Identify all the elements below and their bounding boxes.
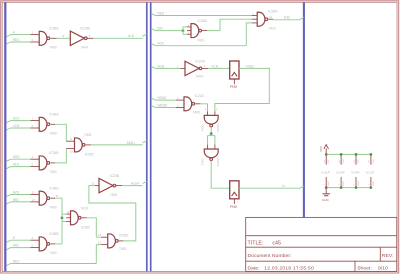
svg-text:7410: 7410	[197, 39, 205, 43]
wire AR2 (to IC35B pin 5)	[6, 248, 10, 250]
wire GND rail (bottom)	[326, 187, 371, 189]
svg-text:7400: 7400	[49, 132, 57, 136]
svg-text:4: 4	[205, 109, 207, 112]
svg-text:Sheet:: Sheet:	[357, 266, 372, 272]
junction node BIO at IC26B inputs	[182, 29, 185, 32]
svg-text:IC21D: IC21D	[216, 122, 220, 132]
svg-text:Document Number:: Document Number:	[248, 253, 292, 259]
wire RES bottom (to IC36D pin 13)	[6, 264, 10, 266]
svg-text:10: 10	[70, 149, 74, 153]
svg-text:IC34P: IC34P	[351, 170, 359, 174]
nand IC21C (vertical, pointing down)	[204, 149, 218, 158]
inverter IC23B	[99, 178, 113, 192]
svg-text:REV:: REV:	[382, 253, 394, 259]
svg-text:ATQ: ATQ	[13, 163, 20, 167]
svg-text:7404: 7404	[110, 193, 118, 197]
wire VCC rail (top)	[326, 153, 371, 155]
svg-text:5: 5	[32, 163, 34, 167]
svg-text:IC19B: IC19B	[81, 27, 91, 31]
svg-text:IC21A: IC21A	[195, 94, 205, 98]
svg-text:14: 14	[354, 160, 356, 163]
svg-text:IC21P: IC21P	[366, 170, 374, 174]
svg-text:9/10: 9/10	[378, 266, 388, 272]
svg-text:11: 11	[92, 181, 95, 185]
svg-text:14: 14	[324, 160, 326, 163]
wire AVD (to IC34D pin 12)	[6, 195, 10, 197]
svg-text:AVD: AVD	[13, 191, 20, 195]
nand IC26B (3-input)	[191, 24, 199, 38]
lamp PH2 lower	[230, 181, 239, 199]
svg-text:IC35A: IC35A	[49, 27, 59, 31]
svg-text:5: 5	[32, 244, 34, 248]
svg-text:VCC: VCC	[319, 145, 323, 152]
svg-text:IC36D: IC36D	[119, 233, 129, 237]
svg-text:3: 3	[63, 34, 65, 38]
svg-text:7: 7	[354, 183, 356, 185]
svg-text:7400: 7400	[84, 133, 92, 137]
wire VCR (IC20A out to PH2 lamp)	[208, 67, 230, 69]
wire ALD4 (IC23B out to middle bus)	[122, 185, 143, 187]
power part IC34P (VCC pin 14 / GND pin 7)	[355, 153, 358, 156]
svg-text:VCB: VCB	[13, 124, 20, 128]
wire GR2 (to IC34A pin 1)	[6, 121, 10, 123]
wire ACK (middle bus to IC26A pin 13)	[151, 44, 155, 46]
wire AJB (IC26A out to right bus)	[273, 19, 300, 21]
svg-text:VCC: VCC	[358, 159, 360, 164]
wire BR2 (to IC34D pin 13)	[6, 202, 10, 204]
nand IC34A	[39, 117, 47, 131]
svg-text:7400: 7400	[49, 251, 57, 255]
inverter IC19B	[70, 31, 84, 45]
power part IC26P (VCC pin 14 / GND pin 7)	[325, 153, 328, 156]
wire IC21A out to IC21D input A	[201, 104, 208, 112]
wire IC35B out joining IC26C input node	[55, 243, 62, 245]
svg-text:9: 9	[70, 137, 72, 141]
svg-text:RES: RES	[13, 38, 20, 42]
svg-text:7: 7	[324, 183, 326, 185]
svg-text:PH2: PH2	[230, 85, 237, 89]
bus middle-left vertical	[146, 2, 148, 271]
svg-text:7410: 7410	[268, 26, 276, 30]
svg-text:7410: 7410	[81, 206, 89, 210]
svg-text:VCC: VCC	[343, 159, 345, 164]
bus middle-right vertical	[150, 2, 152, 271]
svg-text:IC26B: IC26B	[198, 19, 208, 23]
svg-text:IC34B: IC34B	[49, 151, 59, 155]
svg-text:7400: 7400	[193, 110, 201, 114]
svg-text:12: 12	[269, 16, 272, 19]
wire RES (middle bus to IC26A pin 1)	[151, 13, 155, 15]
svg-text:7400: 7400	[119, 247, 127, 251]
wire IC21C out to PH2 lower	[211, 161, 230, 189]
nand IC26A (3-input)	[257, 12, 265, 26]
svg-text:IC35C: IC35C	[85, 152, 95, 156]
svg-text:IC26C: IC26C	[81, 226, 91, 230]
title block frame	[246, 217, 397, 271]
svg-text:7400: 7400	[201, 158, 205, 165]
wire IC34B out to IC35C pin 2	[55, 149, 66, 163]
wire VCB (to IC34A pin 2)	[6, 128, 10, 130]
junction node at IC21C inputs	[210, 132, 213, 135]
svg-text:IC23B: IC23B	[110, 174, 120, 178]
svg-text:GND: GND	[373, 181, 375, 186]
svg-text:ALD4: ALD4	[131, 182, 139, 186]
wire H (to IC35B pin 4)	[6, 240, 10, 242]
svg-text:BIO: BIO	[158, 27, 164, 31]
svg-text:GND: GND	[328, 181, 330, 186]
wire IC34D out down to node at IC26C inputs	[55, 198, 62, 244]
svg-text:2: 2	[32, 38, 34, 42]
svg-text:ADD1: ADD1	[127, 141, 136, 145]
wire H (net H to IC35A pin 1)	[6, 35, 10, 37]
svg-text:7400: 7400	[49, 170, 57, 174]
svg-text:11: 11	[67, 211, 70, 214]
svg-text:IC20P: IC20P	[336, 170, 344, 174]
svg-text:7400: 7400	[49, 206, 57, 210]
svg-text:1: 1	[177, 64, 179, 68]
svg-text:VCC: VCC	[328, 159, 330, 164]
svg-text:12: 12	[98, 233, 102, 237]
svg-text:7400: 7400	[201, 124, 205, 131]
svg-text:IC34A: IC34A	[49, 113, 59, 117]
svg-text:AR2: AR2	[13, 244, 19, 248]
wire IC35A out to IC19B in	[57, 37, 71, 39]
nand IC36D	[108, 234, 116, 248]
svg-text:4: 4	[32, 155, 34, 159]
nand IC35C	[75, 138, 83, 152]
svg-text:1: 1	[32, 31, 34, 35]
svg-text:IC21C: IC21C	[216, 157, 220, 167]
wire LL (PH2 lower to right bus)	[239, 187, 300, 189]
svg-text:7404: 7404	[196, 75, 204, 79]
svg-text:7: 7	[339, 183, 341, 185]
svg-text:IC35B: IC35B	[49, 232, 59, 236]
svg-text:4: 4	[89, 34, 91, 38]
wire SEND (middle bus to IC21A pin 1)	[151, 98, 155, 100]
svg-text:7: 7	[369, 183, 371, 185]
junction node at IC26C inputs	[61, 216, 64, 219]
svg-text:WEND: WEND	[158, 104, 168, 108]
svg-text:ARQ: ARQ	[13, 155, 20, 159]
power symbol GND	[325, 188, 327, 194]
svg-text:VCB1: VCB1	[246, 64, 255, 68]
svg-text:PH2: PH2	[230, 205, 237, 209]
nand IC21D (vertical, pointing down)	[204, 115, 218, 124]
svg-text:14: 14	[339, 160, 341, 163]
wire IC21D out to IC21C inputs	[210, 127, 212, 134]
svg-text:12: 12	[32, 191, 36, 195]
power part IC20P (VCC pin 14 / GND pin 7)	[340, 153, 343, 156]
wire BIO (middle bus to IC26B inputs)	[151, 29, 155, 31]
wire IC26B out loop to IC26A pin 2	[207, 19, 252, 30]
svg-text:1: 1	[177, 96, 179, 100]
power symbol VCC	[325, 148, 327, 154]
svg-text:12.03.2019 17:55:50: 12.03.2019 17:55:50	[264, 266, 314, 272]
inverter IC20A	[185, 61, 199, 75]
svg-text:5: 5	[216, 109, 218, 112]
svg-text:4: 4	[32, 236, 34, 240]
svg-text:13: 13	[98, 241, 102, 245]
svg-text:IC26A: IC26A	[268, 9, 278, 13]
svg-text:ACK: ACK	[158, 42, 165, 46]
wire WEND (middle bus to IC21A pin 2)	[151, 105, 155, 107]
wire IC34A out to IC35C pin 1	[55, 124, 66, 141]
nand IC21A	[184, 97, 192, 111]
svg-text:2: 2	[177, 104, 179, 108]
wire IC26C out to IC36D pin 12	[87, 218, 102, 237]
svg-text:2: 2	[204, 64, 206, 68]
wire ATQ (to IC34B pin 2)	[6, 167, 10, 169]
svg-text:13: 13	[32, 198, 36, 202]
svg-text:SEND: SEND	[158, 96, 168, 100]
svg-text:2: 2	[32, 124, 34, 128]
svg-text:Date:: Date:	[248, 266, 260, 272]
wire IC36D out loop up to IC23B input	[89, 186, 136, 241]
svg-text:IC26P: IC26P	[321, 170, 329, 174]
svg-text:LL: LL	[282, 184, 286, 188]
wire VCB1 (PH2 upper to IC21D input B)	[215, 68, 269, 111]
svg-text:14: 14	[369, 160, 371, 163]
nand IC26C (3-input)	[71, 211, 79, 225]
svg-text:7400: 7400	[49, 46, 57, 50]
wire ALD (IC19B out to middle bus)	[93, 37, 142, 39]
svg-text:H: H	[13, 31, 16, 35]
svg-text:BR2: BR2	[13, 198, 19, 202]
wire ADD1 (IC35C out to middle bus)	[91, 144, 143, 146]
svg-text:GR2: GR2	[13, 117, 20, 121]
nand IC34B	[39, 156, 47, 170]
svg-text:GND: GND	[343, 181, 345, 186]
svg-text:VCC: VCC	[373, 159, 375, 164]
svg-text:1: 1	[32, 117, 34, 121]
power part IC21P (VCC pin 14 / GND pin 7)	[370, 153, 373, 156]
bus right vertical	[303, 2, 305, 217]
svg-text:RES: RES	[158, 12, 165, 16]
svg-text:IC20A: IC20A	[196, 59, 206, 63]
svg-text:AJB: AJB	[284, 16, 290, 20]
svg-text:IC34D: IC34D	[49, 187, 59, 191]
wire RES (net RES to IC35A pin 2)	[6, 42, 10, 44]
svg-text:11: 11	[56, 194, 59, 198]
svg-text:RES: RES	[13, 260, 20, 264]
svg-text:ALD: ALD	[128, 34, 135, 38]
wire ACB (middle bus to IC20A input)	[151, 66, 155, 68]
nand IC35A	[39, 31, 47, 45]
svg-text:H: H	[13, 236, 16, 240]
svg-text:GND: GND	[358, 181, 360, 186]
nand IC34D	[39, 191, 47, 205]
svg-text:TITLE:: TITLE:	[248, 240, 264, 246]
lamp PH2 upper	[230, 61, 239, 79]
svg-text:c45: c45	[272, 240, 281, 246]
svg-text:VCR: VCR	[211, 64, 218, 68]
wire ARQ (to IC34B pin 1)	[6, 159, 10, 161]
svg-text:GND: GND	[322, 198, 330, 202]
bus left vertical	[4, 2, 6, 271]
svg-text:ACB: ACB	[158, 64, 165, 68]
svg-text:7404: 7404	[81, 46, 89, 50]
nand IC35B	[39, 237, 47, 251]
